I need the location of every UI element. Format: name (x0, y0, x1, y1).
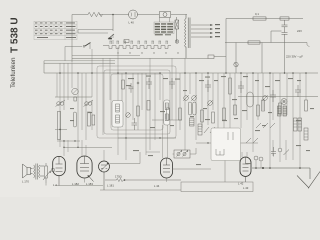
resistor (223, 108, 226, 120)
smoothing capacitor stack (282, 20, 288, 42)
pilot lamp L40 (112, 14, 114, 16)
wire x185 (184, 58, 186, 150)
IF oval pair (188, 102, 191, 115)
shield box outer (97, 66, 176, 138)
ratio detector transformer (278, 106, 282, 116)
wire x122 (121, 73, 123, 110)
bus grid y=97 left (55, 96, 92, 98)
grid stopper resistor (105, 178, 181, 181)
HT line top right (225, 17, 310, 73)
band row y=29.5 (65, 30, 129, 61)
mid components (57, 78, 308, 157)
junction dots earth bus (255, 167, 301, 169)
wire row y120 (152, 119, 182, 121)
electrolytic feed wires (284, 43, 286, 74)
AF line tube3 to socket box (173, 168, 212, 170)
heater pin ticks (110, 41, 167, 44)
rectifier cell (234, 62, 238, 66)
resistor (257, 105, 260, 116)
resistor (179, 108, 182, 120)
wire x293 (292, 73, 294, 160)
tube pin dashed markers (117, 52, 178, 53)
capacitor (169, 78, 175, 89)
wire row y129.5 (55, 129, 67, 131)
wire x213 (212, 73, 214, 110)
junction dots HT rail (59, 72, 307, 74)
osc section coil hatched (198, 124, 202, 135)
svg-text:L 40: L 40 (129, 21, 135, 25)
capacitor (205, 80, 211, 92)
table text smudges (35, 23, 76, 38)
variable capacitor gang 2 (85, 102, 89, 106)
svg-text:0,1: 0,1 (255, 12, 259, 16)
electrolytic capacitor 1 (254, 156, 258, 160)
svg-text:24V: 24V (297, 29, 302, 33)
svg-text:T 538 U: T 538 U (10, 17, 21, 53)
detector cap (271, 147, 276, 157)
resistor on lower wire (248, 41, 260, 44)
switch box link (173, 148, 197, 154)
tone pot with arrow (43, 163, 51, 183)
antenna coil (57, 112, 60, 140)
wire x263 (262, 73, 264, 110)
wire x104 (103, 150, 105, 190)
bus left y=60.8 (44, 60, 115, 62)
capacitor (146, 78, 152, 89)
osc padder coil (137, 106, 140, 116)
svg-text:L 170: L 170 (22, 180, 29, 184)
wire x180 (179, 73, 181, 130)
trimmer mid1 (184, 96, 189, 101)
wire x190 (189, 73, 191, 94)
IF output coil hatched (294, 118, 298, 131)
wire x218 (217, 73, 219, 128)
variable capacitor gang 1 (57, 102, 61, 106)
wire x142 (141, 73, 143, 110)
capacitor (132, 118, 138, 130)
bus screen rail y=55.5 (72, 55, 140, 57)
resistor (167, 108, 170, 120)
shield box middle (104, 70, 170, 134)
IF transformer can 2 (164, 100, 170, 125)
loudspeaker (23, 164, 33, 178)
grid resistor (87, 112, 90, 126)
wire x103 (102, 58, 104, 135)
shield box inner (111, 74, 163, 130)
wire row y147 (64, 146, 112, 148)
wire x150 (149, 58, 151, 150)
tube wire drops (46, 172, 104, 190)
wire corner left (43, 61, 45, 73)
osc coil below (190, 118, 195, 126)
AF wire from eye tube (110, 152, 141, 164)
svg-text:Telefunken: Telefunken (10, 57, 17, 88)
switch box with arrows (174, 150, 190, 158)
wire x235 (234, 73, 236, 115)
bus left y=63.2 (44, 62, 115, 64)
wire x280 (279, 73, 281, 162)
top feeder wire (72, 10, 187, 63)
fuse holder (160, 12, 171, 18)
wire x160 (159, 73, 161, 100)
potentiometer volume (281, 99, 287, 105)
wire x118 (117, 47, 119, 155)
wave switch contact (85, 43, 91, 47)
trimmer circle mid (126, 113, 131, 118)
wire x64 (63, 63, 65, 156)
svg-text:L 4: L 4 (53, 183, 57, 187)
svg-text:175Ω: 175Ω (115, 175, 122, 179)
bottom rail left (55, 185, 103, 187)
wire x258 (257, 73, 259, 120)
wire x230 (229, 73, 231, 128)
resistor (234, 105, 237, 115)
lower mid wires (55, 120, 275, 147)
wire x110 (109, 58, 111, 100)
mains voltage selector block (154, 22, 174, 34)
grid leak resistor (122, 80, 125, 89)
svg-text:L 183: L 183 (86, 182, 93, 186)
wave band wire y=46.5 (65, 46, 82, 48)
IF transformer can 1 (112, 101, 123, 128)
earth bus (252, 168, 320, 188)
lower HT wire (225, 42, 307, 44)
wire vertical x226 (225, 19, 227, 74)
wire x270 (269, 73, 271, 168)
svg-text:L 42: L 42 (238, 182, 244, 186)
transformer tap labels (215, 24, 220, 37)
rectifier tube (77, 156, 94, 182)
wire x167 (167, 125, 168, 182)
resistor (212, 112, 215, 123)
resistor (201, 110, 204, 122)
tuning gang section (56, 88, 288, 106)
wire x86 (85, 73, 87, 156)
wire x162 (162, 125, 164, 158)
fuse Si (175, 17, 179, 43)
electrolytic capacitor 2 (259, 157, 263, 161)
output tick (307, 43, 310, 47)
resistor (262, 100, 265, 111)
wire x146 (146, 73, 160, 155)
wire x306 (305, 73, 307, 100)
wire x82 (81, 73, 83, 156)
chassis arrow (297, 172, 320, 189)
bus HT rail y=73 (44, 72, 318, 74)
svg-text:L 44: L 44 (154, 184, 160, 188)
wire L branch (271, 31, 282, 43)
capacitor (270, 90, 276, 102)
wire row y141 (57, 140, 80, 142)
svg-text:L 43: L 43 (243, 186, 249, 190)
parts table (34, 21, 77, 39)
wire row y138 (118, 137, 176, 139)
socket detail white box (211, 128, 241, 161)
wire x60 (59, 63, 61, 147)
wire vertical x113 (112, 15, 114, 32)
svg-text:220 30V ~ µF: 220 30V ~ µF (286, 55, 303, 59)
IF output coil 2 (298, 118, 302, 131)
coupling cap (51, 168, 55, 172)
oscillator shield cans (97, 66, 176, 138)
output transformer (34, 164, 45, 180)
transformer core (188, 18, 190, 49)
band switch contacts 2 (204, 127, 215, 133)
speaker ground drop (58, 185, 60, 187)
capacitor (295, 85, 301, 97)
socket box ground drop (224, 161, 226, 183)
resistor tall (229, 78, 232, 94)
wire x196 (195, 73, 197, 140)
trimmer capacitor with arrow (108, 34, 114, 39)
AGC pot arrow (284, 150, 290, 156)
wire x224 (223, 73, 225, 128)
wire x273 (272, 73, 274, 156)
bus anode rail y=58 (72, 57, 226, 59)
resistor heater dropper zigzag (88, 12, 102, 16)
coupling coil small rect (124, 40, 129, 43)
resistor at rail end (208, 55, 214, 59)
wire x287 (286, 73, 287, 160)
capacitor (238, 81, 244, 93)
osc coil oval (73, 112, 76, 127)
IF transformer oval 2 (247, 92, 253, 107)
heater chain crenellated winding (103, 41, 171, 49)
wire x138 (137, 73, 139, 130)
resistor (253, 17, 266, 20)
socket pins (216, 132, 233, 155)
switch contacts (246, 123, 275, 143)
output tube (53, 156, 66, 185)
diode arrow (89, 176, 94, 182)
resistor small (147, 101, 150, 111)
svg-text:L 182: L 182 (72, 182, 79, 186)
wire x72 (71, 63, 73, 88)
selector feed legs (160, 18, 179, 44)
AF coupling circle (278, 148, 282, 152)
primary winding bumps (185, 19, 186, 48)
wire x253 (252, 73, 254, 152)
value label smudges (70, 76, 314, 166)
wire row y143 (196, 142, 258, 144)
main rails (44, 55, 318, 97)
wire x78 (77, 73, 79, 147)
resistor (305, 100, 308, 111)
vertical wire comb (57, 47, 306, 190)
trimmer right (263, 96, 268, 101)
trimmer mid3 (208, 101, 213, 106)
det coil hatched (304, 128, 308, 140)
wire vertical x72 (71, 15, 73, 63)
power transformer (185, 15, 213, 59)
resistor (279, 103, 282, 114)
trimmer mid2 (192, 96, 197, 101)
wire x202 (201, 73, 203, 128)
bottom wiring (46, 148, 253, 192)
secondary taps with arrows (191, 25, 210, 37)
bottom rail mid (100, 189, 181, 191)
wire x92 (91, 49, 93, 130)
junction dots mid (59, 129, 230, 148)
pin dot (137, 82, 139, 84)
wire x208 (207, 73, 209, 125)
wire x241 (241, 73, 242, 157)
bypass resistor (92, 115, 95, 125)
wire x300 (299, 73, 301, 168)
svg-text:L 181: L 181 (107, 184, 114, 188)
wire x261 (260, 161, 262, 168)
mica cap (129, 83, 134, 93)
wire x133 (132, 73, 134, 120)
resistor 2 (280, 17, 289, 20)
wire x172 (171, 58, 173, 120)
wire x57 (56, 73, 58, 97)
wire x247 (246, 73, 248, 157)
mixer tube (240, 157, 251, 182)
padder trimmer (72, 88, 78, 94)
magic eye tube (99, 161, 110, 172)
IF tube (161, 158, 173, 178)
wire x68 (67, 63, 69, 152)
wire x126 (125, 73, 127, 160)
bus AVC y=96.5 right (238, 96, 318, 98)
bottom loop rectangle (181, 182, 253, 192)
wire x256 (255, 160, 257, 168)
wire x155 (154, 73, 156, 140)
